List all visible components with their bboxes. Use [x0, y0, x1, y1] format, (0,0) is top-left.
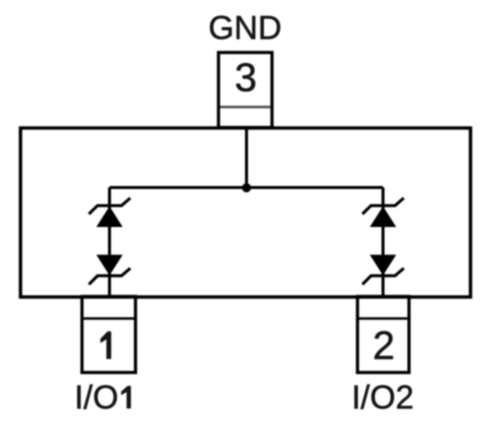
svg-text:3: 3 — [235, 56, 257, 100]
svg-text:GND: GND — [208, 9, 281, 46]
svg-text:2: 2 — [373, 324, 395, 368]
svg-text:I/O2: I/O2 — [352, 379, 414, 416]
svg-text:I/O: I/O — [74, 379, 118, 416]
